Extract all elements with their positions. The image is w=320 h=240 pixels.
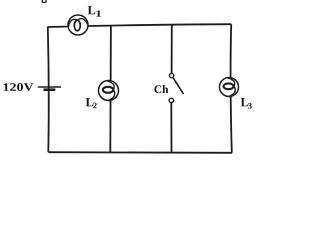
switch Ch bottom terminal — [169, 98, 173, 102]
label L3 — [241, 98, 249, 106]
wire switch branch bottom segment — [170, 103, 172, 153]
wire bottom rail — [48, 151, 232, 154]
stray cropped glyph at top edge — [42, 0, 46, 2]
label L2 — [86, 98, 94, 106]
lamp L2 — [99, 81, 119, 101]
battery B1 long plate — [38, 86, 61, 88]
lamp L1 — [68, 15, 88, 35]
label Ch — [154, 85, 168, 93]
label L1 — [88, 6, 96, 14]
battery B1 short plate — [44, 88, 56, 91]
lamp L3 — [220, 78, 239, 97]
label 120V — [4, 83, 34, 91]
wire switch branch top segment — [171, 25, 173, 74]
wire right rail — [231, 24, 232, 153]
switch Ch blade — [173, 78, 183, 94]
switch Ch top terminal — [169, 73, 173, 77]
wire branch L2 — [109, 25, 112, 152]
wire top rail — [48, 24, 231, 27]
wire left rail — [47, 27, 50, 153]
